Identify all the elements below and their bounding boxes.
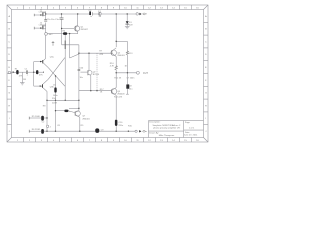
svg-text:30V: 30V	[129, 25, 133, 27]
svg-text:OUT: OUT	[143, 72, 149, 75]
svg-text:Description:: Description:	[149, 121, 160, 124]
svg-text:1 of 1: 1 of 1	[189, 128, 195, 130]
svg-text:R11 1K: R11 1K	[114, 78, 121, 80]
svg-text:4.7K: 4.7K	[110, 66, 115, 68]
svg-text:phono preamp amplifier LR: phono preamp amplifier LR	[153, 126, 180, 129]
svg-text:47K: 47K	[39, 75, 43, 77]
svg-text:2k: 2k	[52, 44, 54, 46]
svg-text:2N4401: 2N4401	[117, 55, 125, 57]
svg-text:C2a 10u: C2a 10u	[47, 19, 56, 21]
svg-text:June 27, 2011: June 27, 2011	[184, 135, 198, 137]
svg-text:Mike Thompson: Mike Thompson	[159, 135, 175, 137]
svg-text:J: J	[50, 126, 51, 128]
svg-text:47K: 47K	[19, 76, 23, 78]
svg-text:J: J	[205, 131, 206, 133]
svg-text:1u: 1u	[90, 16, 92, 18]
svg-text:J: J	[9, 131, 10, 133]
svg-text:G: G	[205, 93, 207, 95]
svg-text:Page: Page	[185, 122, 191, 124]
svg-text:LSK170: LSK170	[39, 24, 45, 26]
svg-text:LSK170: LSK170	[39, 11, 45, 13]
svg-text:2N4403: 2N4403	[117, 93, 125, 95]
svg-text:BC550: BC550	[93, 74, 100, 76]
svg-text:G: G	[8, 93, 10, 95]
svg-text:C7 100n: C7 100n	[127, 78, 136, 80]
svg-text:2N5087: 2N5087	[81, 29, 89, 31]
svg-text:220R: 220R	[52, 103, 57, 105]
svg-text:R12 22K: R12 22K	[114, 97, 123, 99]
svg-text:R5 100K: R5 100K	[32, 116, 41, 118]
svg-text:47K: 47K	[99, 54, 103, 56]
svg-text:R6 220R: R6 220R	[32, 129, 41, 131]
svg-text:1M: 1M	[23, 79, 26, 81]
svg-text:2N4401: 2N4401	[82, 119, 90, 121]
svg-text:Date:: Date:	[185, 131, 190, 134]
